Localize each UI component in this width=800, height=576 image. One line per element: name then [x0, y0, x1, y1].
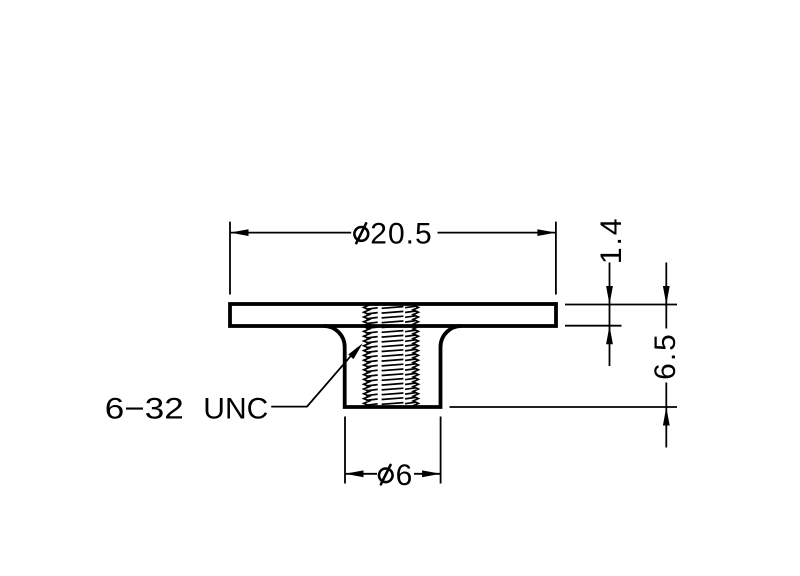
- thread left zigzag: [364, 305, 370, 406]
- thread left crest lines: [366, 308, 378, 405]
- svg-text:6: 6: [396, 459, 413, 492]
- dimension Ø6 right arrow: [422, 470, 441, 477]
- dimension Ø20.5 line: [230, 232, 556, 234]
- svg-text:20.5: 20.5: [370, 217, 432, 250]
- dimension 1.4 bottom arrow: [606, 326, 613, 345]
- dimension 6.5 top arrow: [663, 286, 670, 305]
- boss outline with fillets: [324, 326, 462, 407]
- dimension Ø20.5 text: [354, 217, 432, 250]
- leader line: [271, 348, 357, 406]
- thread right zigzag: [413, 305, 418, 406]
- svg-text:1.4: 1.4: [595, 216, 628, 264]
- dimension Ø20.5 extension lines: [230, 222, 556, 295]
- svg-text:6.5: 6.5: [649, 332, 682, 380]
- dimension 1.4 line: [609, 263, 611, 367]
- dimension 6.5 extension line bottom: [450, 406, 678, 408]
- dimension Ø6 line: [345, 473, 441, 475]
- dimension 1.4 top arrow: [606, 286, 613, 305]
- flange outline: [230, 304, 556, 326]
- dimension 6.5 line: [665, 263, 667, 448]
- dimension Ø20.5 left arrow: [230, 229, 249, 236]
- dimension Ø20.5 right arrow: [537, 229, 556, 236]
- thread right crest lines: [405, 306, 416, 404]
- dimension 1.4 extension lines: [565, 305, 677, 326]
- dimension Ø6 text: [379, 459, 412, 492]
- thread middle crest lines: [382, 307, 404, 405]
- dimension Ø6 extension lines: [345, 417, 441, 484]
- svg-text:6−32UNC: 6−32UNC: [105, 392, 268, 425]
- dimension Ø6 left arrow: [345, 470, 364, 477]
- dimension 6.5 bottom arrow: [663, 407, 670, 426]
- leader arrowhead: [348, 343, 362, 359]
